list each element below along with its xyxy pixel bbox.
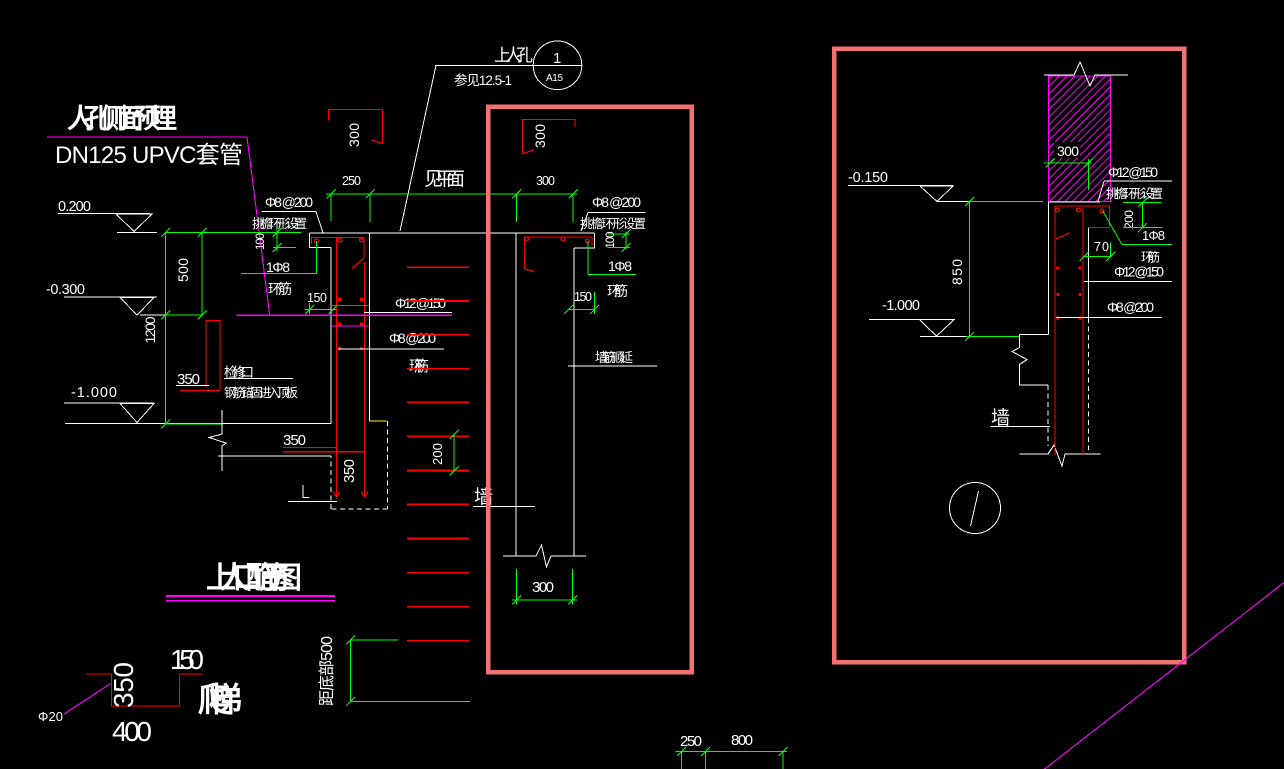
top dim line 250/300 green: [326, 190, 578, 223]
slab top rebar red left detail: [312, 238, 365, 269]
svg-text:300: 300: [536, 174, 555, 188]
svg-text:350: 350: [283, 432, 306, 449]
svg-text:环筋: 环筋: [607, 283, 628, 299]
wall1 vertical rebar bars: [333, 238, 368, 498]
leader 1Φ8 green box2: [1103, 211, 1173, 245]
svg-text:检修口: 检修口: [224, 365, 254, 380]
wall3 bottom break: [1020, 445, 1101, 466]
wall2 right edge: [573, 248, 575, 556]
svg-text:环筋: 环筋: [268, 281, 292, 297]
underline 检修口: [224, 378, 293, 380]
svg-text:墙筋顺延: 墙筋顺延: [595, 350, 633, 365]
svg-text:0.200: 0.200: [58, 199, 91, 215]
ladder rungs red column: [407, 267, 469, 641]
svg-text:150: 150: [307, 291, 327, 305]
footing top line: [218, 455, 331, 457]
svg-text:300: 300: [346, 123, 362, 147]
yellow footing tick: [369, 420, 387, 422]
svg-text:A15: A15: [546, 73, 563, 84]
magenta leader from DN125 label: [47, 137, 270, 315]
elevation -0.150 symbol: [848, 186, 968, 202]
dim 100 green marks: [273, 228, 297, 252]
dim 距底部500 green marks: [346, 636, 470, 707]
svg-text:环筋: 环筋: [1141, 250, 1160, 265]
dim 200 rungs green: [450, 430, 459, 476]
underline Φ8@200 box2: [1056, 317, 1162, 319]
svg-text:上人口配筋图: 上人口配筋图: [206, 562, 302, 595]
svg-text:上人孔: 上人孔: [494, 46, 533, 65]
svg-text:人孔侧面预埋: 人孔侧面预埋: [67, 104, 177, 134]
section mark L: [288, 485, 337, 502]
wall3 lower left dashed: [1047, 385, 1049, 446]
bent bar bracket left detail: [329, 110, 383, 144]
wall1 left edge: [330, 248, 332, 424]
svg-text:环筋: 环筋: [409, 358, 429, 375]
svg-text:1Φ8: 1Φ8: [266, 259, 290, 275]
bent bar bracket in box1: [523, 120, 576, 155]
detail bubble leader line: [400, 65, 582, 231]
svg-text:250: 250: [342, 174, 361, 188]
svg-text:400: 400: [112, 716, 152, 747]
svg-text:300: 300: [532, 579, 554, 596]
elevation 0.200 symbol: [58, 214, 157, 233]
svg-text:钢筋锚固进入顶板: 钢筋锚固进入顶板: [224, 385, 298, 400]
hoop dots on wall1 bars: [338, 298, 364, 351]
svg-text:Φ12 @150: Φ12 @150: [1114, 264, 1164, 280]
underline 墙筋顺延: [568, 365, 657, 367]
wall1 right edge: [369, 233, 371, 421]
wall3 rebar verticals red: [1055, 206, 1083, 455]
wall3 ledge red outline: [1055, 206, 1110, 228]
svg-text:500: 500: [175, 258, 191, 282]
wall2 left edge: [515, 233, 517, 556]
svg-text:Φ20: Φ20: [38, 709, 63, 724]
wall3 left face white: [1048, 202, 1050, 335]
svg-text:-0.150: -0.150: [848, 170, 888, 186]
leader bracket Φ8@200 detail2: [581, 213, 646, 232]
svg-text:350: 350: [108, 662, 139, 708]
dim 100 green marks detail2: [608, 229, 631, 252]
svg-text:-0.300: -0.300: [46, 282, 85, 298]
svg-text:350: 350: [341, 459, 358, 483]
dim 200 green marks box2: [1123, 198, 1163, 232]
ladder rung detail red U: [87, 674, 203, 706]
dim vertical 1200 green: [161, 228, 301, 429]
level line -0.150 green: [965, 197, 1043, 206]
numeral 1 inside circle: [971, 491, 979, 526]
leader 1Φ8 green detail2: [588, 241, 636, 275]
svg-text:距底部500: 距底部500: [318, 636, 336, 706]
underline 350: [176, 385, 209, 387]
svg-text:参见12.5-1: 参见12.5-1: [454, 72, 512, 88]
svg-text:1: 1: [553, 50, 561, 67]
top break line over column: [1044, 62, 1128, 86]
svg-text:挑檐环形设置: 挑檐环形设置: [1106, 186, 1163, 201]
svg-text:150: 150: [170, 644, 204, 675]
rebar section dots slab1: [315, 238, 364, 243]
underline Φ8@200 wall: [338, 348, 444, 350]
wall3 right face upper: [1088, 228, 1090, 319]
UPVC pipe magenta through wall: [237, 306, 453, 327]
svg-text:850: 850: [949, 259, 965, 285]
underline and leader Φ12@150 top: [1098, 181, 1172, 202]
svg-text:挑檐环形设置: 挑檐环形设置: [580, 216, 646, 231]
dim vertical 850 green: [965, 202, 1020, 341]
svg-text:爬梯: 爬梯: [198, 681, 242, 718]
dim 150 green marks detail2: [564, 292, 599, 314]
svg-text:800: 800: [731, 732, 753, 749]
wall2 bottom break line: [503, 545, 586, 567]
svg-text:200: 200: [1122, 210, 1136, 229]
ladder leader magenta: [64, 684, 111, 715]
red anchor bars 350: [283, 448, 365, 452]
underline 墙: [473, 506, 535, 508]
selection box 2 salmon: [834, 49, 1184, 663]
dim text 300 hatch: [1054, 142, 1080, 158]
dim 70 green marks: [1080, 243, 1116, 262]
detail2 slab right edge step: [574, 233, 595, 248]
break line with zigzag at x222: [209, 410, 226, 471]
svg-text:300: 300: [1057, 143, 1079, 159]
underline 墙 box2: [991, 426, 1051, 428]
ground line into wall box2: [1020, 334, 1049, 336]
svg-text:70: 70: [1094, 240, 1109, 254]
wall3 right face dashed: [1088, 318, 1090, 450]
svg-text:墙: 墙: [991, 407, 1010, 429]
svg-text:Φ12 @150: Φ12 @150: [1108, 164, 1158, 180]
dim 300 bottom of box1 green: [512, 569, 577, 605]
hatched masonry column magenta: [919, 76, 1237, 202]
buried footing dashed outline: [331, 421, 388, 509]
svg-text:100: 100: [255, 233, 267, 250]
svg-text:Φ12 @150: Φ12 @150: [395, 295, 446, 311]
svg-text:1Φ8: 1Φ8: [608, 258, 632, 274]
svg-text:250: 250: [680, 733, 702, 750]
rebar dots detail2: [525, 237, 590, 243]
slab top line both details: [310, 232, 595, 234]
svg-text:1Φ8: 1Φ8: [1142, 228, 1165, 243]
bottom dim line 250/800 green: [676, 747, 788, 769]
dim 300 hatch green marks: [1044, 159, 1093, 191]
elevation -0.300 symbol: [64, 297, 166, 315]
rebar dots wall3: [1056, 208, 1105, 213]
svg-text:1200: 1200: [142, 316, 158, 343]
svg-text:150: 150: [574, 290, 592, 304]
svg-text:见平面: 见平面: [424, 169, 465, 190]
elevation -1.000 symbol left: [64, 403, 154, 423]
wall3 slab line under hatch: [1049, 201, 1101, 203]
detail2 slab rebar red: [525, 237, 593, 272]
svg-text:Φ8 @200: Φ8 @200: [389, 330, 436, 346]
detail bubble circle 1/A15: [533, 41, 582, 90]
underline Φ12@150 mid: [1084, 281, 1172, 283]
svg-text:Φ8 @200: Φ8 @200: [592, 194, 641, 210]
svg-text:200: 200: [430, 443, 445, 465]
svg-text:挑檐环形设置: 挑檐环形设置: [252, 216, 307, 231]
selection box 1 salmon: [488, 107, 692, 673]
svg-text:Φ8 @200: Φ8 @200: [265, 194, 313, 210]
svg-text:DN125 UPVC套管: DN125 UPVC套管: [55, 142, 243, 169]
leader bracket for Φ8@200 left: [262, 212, 324, 234]
title double underline magenta: [166, 596, 335, 601]
svg-text:-1.000: -1.000: [71, 385, 117, 401]
ground line at -1.000: [65, 423, 331, 425]
big magenta diagonal bottom right: [1044, 583, 1284, 769]
svg-text:300: 300: [532, 124, 548, 148]
wall3 lower left face with break: [1012, 335, 1048, 386]
slab left overhang edge: [310, 233, 332, 248]
underline Φ12@150: [364, 312, 452, 314]
leader 1Φ8 green left: [241, 241, 317, 274]
detail circle 1 box2: [950, 483, 1001, 534]
检修口 red frame: [180, 321, 220, 391]
svg-text:-1.000: -1.000: [882, 298, 920, 314]
dim 150 green marks: [305, 303, 338, 314]
elevation -1.000 symbol box2: [869, 319, 966, 336]
svg-text:Φ8 @200: Φ8 @200: [1107, 299, 1154, 315]
